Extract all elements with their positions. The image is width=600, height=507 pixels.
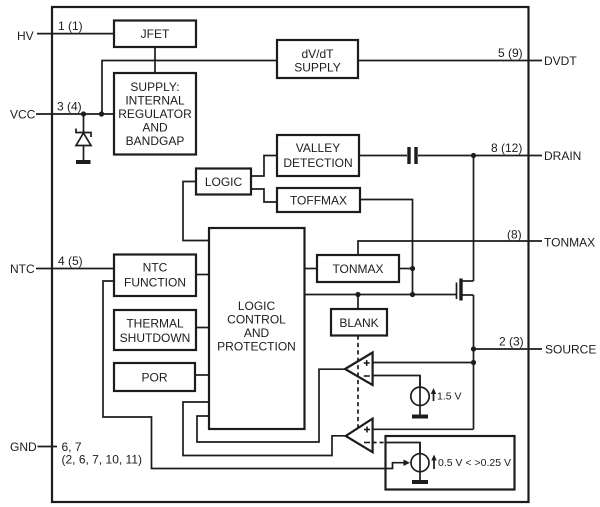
svg-text:LOGIC: LOGIC: [205, 175, 243, 189]
svg-text:INTERNAL: INTERNAL: [125, 94, 185, 108]
svg-text:LOGIC: LOGIC: [238, 299, 276, 313]
svg-text:BLANK: BLANK: [339, 316, 378, 330]
wire upper comparator plus input from source net: [373, 362, 474, 364]
svg-text:NTC: NTC: [143, 261, 168, 275]
pin VCC stub: [36, 113, 114, 115]
node SOURCE junction: [471, 346, 476, 351]
box 0.5V source block: [386, 436, 515, 490]
wire TOFFMAX down to gate line: [360, 200, 413, 295]
transistor MOSFET: [457, 279, 474, 301]
op-amp upper comparator: [345, 353, 373, 386]
dashed blanking line from BLANK to lower comparator: [357, 336, 359, 428]
svg-text:dV/dT: dV/dT: [301, 47, 334, 61]
svg-text:0.5 V < >0.25 V: 0.5 V < >0.25 V: [438, 457, 511, 469]
svg-text:DRAIN: DRAIN: [544, 149, 581, 163]
svg-text:SOURCE: SOURCE: [545, 343, 596, 357]
pin SOURCE stub: [474, 348, 543, 350]
wire THERMAL SHUTDOWN to LOGIC CONTROL: [196, 327, 209, 329]
wire TONMAX to TONMAX pin: [358, 241, 542, 255]
current source 0.5V: [411, 443, 437, 483]
op-amp lower comparator: [346, 419, 373, 453]
block LOGIC: [196, 169, 251, 195]
block POR: [114, 363, 195, 391]
svg-text:SHUTDOWN: SHUTDOWN: [120, 331, 191, 345]
pin NTC stub: [36, 268, 114, 270]
dashed wire lower comparator minus to 0.5V box: [373, 442, 386, 444]
wire LOGIC CONTROL to TONMAX: [305, 268, 318, 270]
wire NTC FUNCTION to LOGIC CONTROL: [196, 274, 209, 276]
wire dV/dT SUPPLY to DVDT pin: [358, 60, 542, 62]
wire LOGIC down to LOGIC CONTROL: [183, 182, 209, 241]
block BLANK: [331, 309, 387, 336]
svg-text:THERMAL: THERMAL: [126, 317, 184, 331]
svg-text:POR: POR: [141, 371, 167, 385]
ground bar under zener: [76, 160, 91, 164]
wire LOGIC to VALLEY DETECTION: [251, 156, 277, 177]
current source 1.5V: [411, 376, 436, 417]
svg-text:HV: HV: [17, 29, 34, 43]
arrowhead into 0.5V source: [404, 460, 411, 467]
svg-text:(8): (8): [507, 228, 522, 242]
wire TONMAX output to gate line: [399, 268, 413, 270]
IC outer boundary: [52, 7, 529, 502]
wire MOSFET source down: [473, 295, 475, 429]
wire dV/dT supply feed: [102, 61, 277, 115]
pin GND stub: [38, 446, 58, 448]
svg-text:TOFFMAX: TOFFMAX: [290, 194, 347, 208]
node TONMAX/TOFFMAX junction: [410, 266, 415, 271]
pin HV stub: [37, 33, 114, 35]
block TOFFMAX: [277, 188, 360, 212]
node VCC junction 2: [99, 111, 104, 116]
svg-text:PROTECTION: PROTECTION: [217, 340, 296, 354]
svg-text:AND: AND: [142, 121, 168, 135]
node source sense junction: [471, 360, 476, 365]
wire JFET to SUPPLY: [154, 47, 156, 73]
block dV/dT SUPPLY: [277, 40, 358, 78]
svg-text:NTC: NTC: [10, 262, 35, 276]
svg-text:VCC: VCC: [10, 108, 36, 122]
svg-text:5 (9): 5 (9): [498, 46, 523, 60]
wire MOSFET drain up to DRAIN node: [473, 156, 475, 282]
wire lower comparator output to LOGIC CONTROL: [183, 402, 348, 456]
svg-text:JFET: JFET: [141, 27, 170, 41]
svg-text:TONMAX: TONMAX: [544, 236, 595, 250]
svg-text:DVDT: DVDT: [544, 54, 577, 68]
svg-text:DETECTION: DETECTION: [283, 156, 352, 170]
svg-text:TONMAX: TONMAX: [332, 262, 383, 276]
zener diode at VCC: [76, 114, 91, 162]
block THERMAL SHUTDOWN: [114, 310, 196, 350]
block VALLEY DETECTION: [277, 135, 359, 176]
wire VALLEY DETECTION to capacitor: [359, 155, 407, 157]
node gate line junction with BLANK: [355, 292, 360, 297]
svg-text:(2, 6, 7, 10, 11): (2, 6, 7, 10, 11): [62, 453, 143, 467]
node VCC junction 1: [81, 111, 86, 116]
svg-text:1 (1): 1 (1): [58, 19, 83, 33]
wire capacitor to DRAIN pin: [418, 155, 542, 157]
svg-text:FUNCTION: FUNCTION: [124, 276, 186, 290]
svg-text:8 (12): 8 (12): [491, 141, 522, 155]
wire NTC FUNCTION to 0.5V current source (long route): [103, 281, 406, 469]
wire lower comparator plus input from source net: [373, 428, 474, 430]
wire POR to LOGIC CONTROL: [195, 374, 209, 376]
block TONMAX: [317, 255, 399, 282]
svg-text:VALLEY: VALLEY: [296, 141, 340, 155]
wire BLANK to gate line: [357, 295, 359, 310]
svg-text:1.5 V: 1.5 V: [437, 391, 462, 403]
svg-text:3 (4): 3 (4): [57, 100, 82, 114]
block NTC FUNCTION: [114, 255, 196, 297]
svg-text:CONTROL: CONTROL: [227, 313, 286, 327]
svg-text:4 (5): 4 (5): [58, 254, 83, 268]
block SUPPLY: INTERNAL REGULATOR AND BANDGAP: [114, 73, 196, 155]
svg-text:SUPPLY: SUPPLY: [294, 61, 340, 75]
svg-text:2 (3): 2 (3): [499, 335, 524, 349]
svg-text:AND: AND: [244, 326, 270, 340]
wire inside 0.5V box to source top: [386, 443, 421, 454]
svg-text:SUPPLY:: SUPPLY:: [130, 80, 179, 94]
node gate line junction with TOFFMAX: [410, 292, 415, 297]
svg-text:BANDGAP: BANDGAP: [126, 134, 185, 148]
capacitor in drain sense path: [407, 147, 410, 164]
block JFET: [114, 21, 196, 48]
wire upper comparator minus input to 1.5V source: [373, 376, 420, 388]
wire LOGIC to TOFFMAX: [251, 189, 277, 202]
node DRAIN junction: [471, 153, 476, 158]
svg-text:REGULATOR: REGULATOR: [118, 107, 192, 121]
wire gate drive line: [305, 294, 457, 296]
block LOGIC CONTROL AND PROTECTION: [209, 228, 305, 429]
svg-text:GND: GND: [10, 440, 37, 454]
wire upper comparator output to LOGIC CONTROL: [197, 369, 346, 442]
